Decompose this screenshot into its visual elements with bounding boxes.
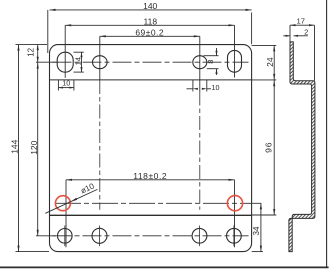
ext 8 top: [204, 55, 219, 57]
svg-text:24: 24: [265, 57, 275, 67]
red circle right: [227, 196, 242, 211]
ext 34 bottom: [252, 251, 263, 253]
ext 17 right: [314, 25, 316, 80]
ext 144 bottom: [16, 251, 50, 253]
dim 69: [100, 35, 200, 37]
centerline col3 dashes: [199, 92, 201, 210]
svg-text:10: 10: [212, 83, 220, 92]
svg-text:8: 8: [206, 60, 215, 64]
ext right band2: [252, 214, 277, 216]
hole bottom 4: [227, 228, 242, 243]
centerline col2 dashes: [99, 80, 101, 210]
slot hole small: [193, 56, 207, 69]
slot hole top-left: [57, 52, 73, 72]
plate outline: [50, 45, 252, 252]
top row centerline: [53, 61, 249, 63]
centerline col1 lower: [65, 180, 67, 248]
ext 14 top: [74, 51, 84, 53]
svg-text:12: 12: [26, 47, 35, 56]
hole bottom 2: [92, 228, 107, 243]
dim 96: [273, 80, 275, 215]
ext 120 bottom: [36, 235, 56, 237]
dim 118: [65, 24, 234, 26]
dim 14: [81, 52, 83, 72]
hole bottom 3: [192, 228, 207, 243]
svg-text:140: 140: [143, 1, 157, 11]
ext right top: [252, 44, 277, 46]
svg-text:2: 2: [304, 27, 308, 36]
ext 120 top: [36, 61, 57, 63]
dim 10 left: [57, 80, 59, 91]
hole top second: [93, 56, 108, 69]
top bend line: [50, 79, 252, 81]
svg-text:ø10: ø10: [79, 181, 96, 195]
dim 140: [50, 9, 252, 11]
centerline col2: [99, 36, 101, 80]
svg-text:144: 144: [10, 139, 20, 153]
svg-text:118: 118: [144, 17, 158, 27]
side view section profile: [289, 42, 315, 252]
slot hole top-right: [228, 50, 242, 72]
centerline col4 upper: [234, 25, 236, 77]
svg-text:34: 34: [252, 226, 261, 235]
ext 144 top: [16, 44, 48, 46]
centerline col4 lower: [234, 180, 236, 248]
svg-text:10: 10: [62, 78, 70, 87]
centerline col3: [199, 36, 201, 91]
border right line: [326, 0, 328, 267]
dim 8: [216, 48, 218, 56]
svg-text:17: 17: [296, 17, 304, 26]
svg-text:14: 14: [74, 57, 83, 65]
centerline col1 upper: [64, 25, 66, 78]
ext 8 bottom: [207, 68, 219, 70]
dim 34: [260, 203, 262, 251]
ext right band1: [252, 79, 277, 81]
svg-text:118±0.2: 118±0.2: [133, 171, 167, 181]
dim 10 right: [192, 80, 194, 92]
dim 24: [273, 45, 275, 80]
dim 2: [283, 35, 290, 37]
svg-text:69±0.2: 69±0.2: [135, 28, 164, 38]
hole bottom 1: [58, 229, 73, 244]
border bottom line: [0, 266, 329, 268]
dim 12: [37, 45, 39, 63]
ext 14 bottom: [74, 71, 84, 73]
svg-text:96: 96: [264, 142, 274, 153]
bottom row centerline: [53, 235, 249, 237]
ext 17 left: [289, 25, 291, 42]
dim 120: [37, 62, 39, 236]
dim 144: [18, 45, 20, 252]
red circle left: [55, 196, 70, 211]
svg-text:120: 120: [29, 140, 39, 154]
leader dia10: [45, 189, 97, 213]
hole row centerline: [55, 202, 261, 204]
dim 118 tol: [66, 179, 235, 181]
dim 17: [290, 24, 315, 26]
bottom bend line: [50, 214, 252, 216]
